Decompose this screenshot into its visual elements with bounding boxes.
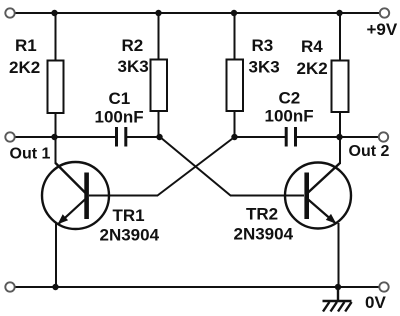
resistor R1 xyxy=(9,36,64,113)
svg-text:Out 2: Out 2 xyxy=(349,143,390,160)
svg-text:100nF: 100nF xyxy=(265,107,314,126)
node top rail R3 xyxy=(231,10,237,16)
transistor TR1 xyxy=(42,137,160,287)
wire C2 to Out2 xyxy=(296,136,379,138)
resistor R2 xyxy=(118,36,168,111)
svg-text:Out 1: Out 1 xyxy=(10,146,51,163)
terminal top left xyxy=(5,8,14,17)
wire cross-coupling diagonal node C to TR1 base xyxy=(158,137,235,196)
svg-text:R1: R1 xyxy=(15,36,37,55)
ground xyxy=(323,287,352,312)
terminal Out 1 xyxy=(5,132,14,141)
svg-text:C1: C1 xyxy=(109,89,131,108)
wire R3 bottom node to C2 xyxy=(234,136,286,138)
node bottom rail TR1 emitter xyxy=(52,284,58,290)
svg-text:+9V: +9V xyxy=(367,20,398,39)
capacitor C2 xyxy=(265,89,314,147)
terminal +9V xyxy=(380,8,389,17)
svg-text:3K3: 3K3 xyxy=(249,58,280,77)
wire R1 bottom xyxy=(55,112,57,138)
svg-text:3K3: 3K3 xyxy=(118,57,149,76)
terminal Out 2 xyxy=(379,132,388,141)
svg-text:TR2: TR2 xyxy=(246,205,278,224)
svg-text:TR1: TR1 xyxy=(113,206,145,225)
svg-text:2N3904: 2N3904 xyxy=(234,225,294,244)
svg-text:R3: R3 xyxy=(252,36,274,55)
node top rail R2 xyxy=(155,10,161,16)
terminal 0V xyxy=(379,282,388,291)
wire Out1 to C1 xyxy=(15,136,117,138)
node top rail R1 xyxy=(51,10,57,16)
resistor R4 xyxy=(297,37,349,112)
node bottom rail ground xyxy=(335,284,341,290)
svg-text:R2: R2 xyxy=(122,36,144,55)
svg-text:2K2: 2K2 xyxy=(9,58,40,77)
node R3-C2 xyxy=(231,134,237,140)
wire R3 top xyxy=(234,13,236,60)
svg-text:2N3904: 2N3904 xyxy=(100,226,160,245)
wire R2 bottom xyxy=(158,110,160,138)
svg-text:2K2: 2K2 xyxy=(297,59,328,78)
svg-text:0V: 0V xyxy=(365,293,386,312)
node C1-R2 xyxy=(156,134,162,140)
wire R3 bottom xyxy=(234,110,236,138)
node Out2 xyxy=(336,134,342,140)
wire R4 bottom xyxy=(339,111,341,138)
svg-text:R4: R4 xyxy=(301,37,323,56)
transistor TR2 xyxy=(234,137,352,287)
wire TR2 base horizontal xyxy=(230,195,304,197)
node Out1 xyxy=(51,134,57,140)
wire cross-coupling diagonal node B to TR2 base xyxy=(160,137,231,196)
wire top rail +9V xyxy=(15,12,381,14)
svg-text:100nF: 100nF xyxy=(95,108,144,127)
wire bottom rail 0V xyxy=(15,286,380,288)
terminal bottom left xyxy=(5,282,14,291)
wire C1 to R2 bottom node xyxy=(126,136,160,138)
node top rail R4 xyxy=(336,10,342,16)
wire R4 top xyxy=(339,13,341,61)
resistor R3 xyxy=(227,36,280,111)
wire R1 top xyxy=(55,13,57,61)
wire R2 top xyxy=(158,13,160,60)
wire TR1 base horizontal xyxy=(89,195,158,197)
capacitor C1 xyxy=(95,89,144,147)
svg-text:C2: C2 xyxy=(279,89,301,108)
